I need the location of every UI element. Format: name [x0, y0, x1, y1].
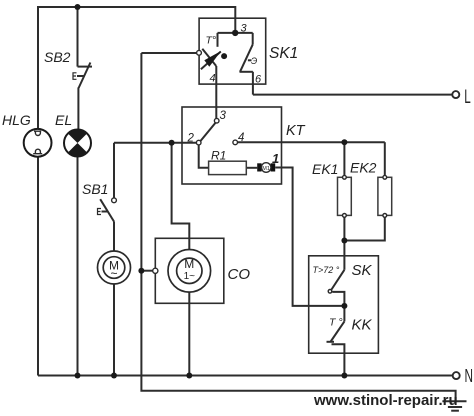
svg-text:L: L [464, 87, 471, 108]
svg-text:N: N [465, 366, 474, 386]
svg-text:R1: R1 [211, 149, 226, 163]
svg-text:M: M [184, 257, 194, 271]
svg-text:www.stinol-repair.ru: www.stinol-repair.ru [313, 392, 458, 409]
svg-text:T°: T° [206, 35, 217, 47]
svg-text:SK: SK [352, 262, 373, 279]
svg-text:2: 2 [187, 133, 195, 145]
svg-text:4: 4 [238, 132, 244, 144]
svg-text:Э: Э [251, 56, 257, 66]
svg-text:T °: T ° [329, 317, 343, 329]
svg-text:EL: EL [55, 112, 72, 128]
svg-text:KK: KK [352, 317, 373, 334]
svg-text:3: 3 [220, 110, 227, 122]
svg-text:T>72 °: T>72 ° [313, 265, 340, 275]
svg-text:EK1: EK1 [312, 161, 338, 177]
svg-text:KT: KT [286, 123, 306, 139]
svg-text:3: 3 [241, 23, 248, 35]
svg-text:SB1: SB1 [82, 181, 108, 197]
svg-text:EK2: EK2 [350, 160, 377, 176]
svg-text:~: ~ [110, 267, 117, 281]
svg-text:SK1: SK1 [269, 45, 298, 62]
svg-text:4: 4 [210, 73, 216, 85]
svg-text:1~: 1~ [184, 271, 196, 282]
svg-text:1: 1 [272, 151, 279, 166]
svg-text:CO: CO [228, 266, 251, 283]
svg-text:HLG: HLG [2, 112, 31, 128]
svg-text:M1: M1 [262, 166, 270, 172]
svg-text:SB2: SB2 [44, 49, 71, 65]
svg-text:6: 6 [255, 74, 262, 86]
